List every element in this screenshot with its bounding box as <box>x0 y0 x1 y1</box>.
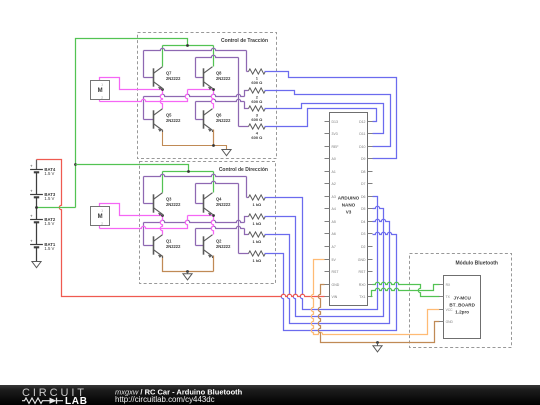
svg-text:1 kΩ: 1 kΩ <box>253 239 263 244</box>
svg-text:BT_BOARD: BT_BOARD <box>449 303 475 308</box>
svg-text:1.5 V: 1.5 V <box>44 246 54 251</box>
wire: R5 left lead (purple) <box>247 197 249 199</box>
transistor Q8 (2N2222 NPN) <box>204 67 213 89</box>
wire: battery tap to +V net (green) <box>37 207 76 209</box>
junction: GND net ground tap <box>376 341 379 344</box>
wire: magenta to Q4 emitter <box>188 215 214 217</box>
junction: Q4 emitter node <box>212 214 215 217</box>
svg-text:RX0: RX0 <box>359 283 366 287</box>
svg-text:1 kΩ: 1 kΩ <box>253 221 263 226</box>
svg-text:600 Ω: 600 Ω <box>251 99 263 104</box>
svg-text:A1: A1 <box>332 170 336 174</box>
pin A6 (left) / pin D3 (right) of U1 <box>325 233 330 235</box>
svg-text:1.5 V: 1.5 V <box>44 221 54 226</box>
svg-text:V3: V3 <box>346 210 352 215</box>
pin GND of U2 bluetooth module <box>439 321 444 323</box>
svg-text:ARDUINO: ARDUINO <box>338 196 360 201</box>
svg-text:Q6: Q6 <box>216 112 222 117</box>
IC U2: JY-MCU BT_BOARD 1.2pro bluetooth module <box>444 276 481 339</box>
wire: Q5 base to R2 (purple) <box>144 94 245 96</box>
wire: magenta to Q8 emitter <box>188 89 214 91</box>
wire: R1 drop (purple) <box>246 51 248 72</box>
ground GND net ground symbol <box>377 343 379 346</box>
wire: R6 jog (purple) <box>245 217 249 223</box>
svg-text:VCC: VCC <box>446 308 454 312</box>
ground box1 ground <box>226 149 228 151</box>
svg-text:3V3: 3V3 <box>332 132 338 136</box>
wire: Q2 emitter drop (brown) <box>213 256 215 272</box>
svg-text:600 Ω: 600 Ω <box>251 135 263 140</box>
wire: Q5 base stub (purple) <box>144 119 154 121</box>
svg-text:A2: A2 <box>332 182 336 186</box>
wire: Q2 base riser (purple) <box>195 229 197 246</box>
wire: 5V to BT VCC (orange) <box>311 260 439 335</box>
wire: battery interconnect BAT2-BAT1 <box>36 223 38 245</box>
pin RX of U2 bluetooth module <box>439 284 444 286</box>
svg-text:600 Ω: 600 Ω <box>251 80 263 85</box>
wire: TX1 to BT RX (green) <box>371 285 440 297</box>
transistor Q6 (2N2222 NPN) <box>204 109 213 131</box>
svg-text:Control de Tracción: Control de Tracción <box>221 38 268 44</box>
wire: Q5 collector riser (magenta) <box>160 90 162 109</box>
wire: R1 to D9 (blue) <box>265 72 397 159</box>
pin REF (left) / pin D10 (right) of U1 <box>325 146 330 148</box>
wire: R5 to D6 (blue) <box>265 197 378 310</box>
battery BAT1 (1.5 V cell) <box>30 245 43 248</box>
wire: motor2 terminal2 run (magenta) <box>100 216 188 229</box>
svg-text:1.2pro: 1.2pro <box>455 310 469 315</box>
wire: Q1 emitter to ground (brown) <box>163 256 214 272</box>
wire: Q1 collector riser (magenta) <box>160 216 162 235</box>
wire: R3 jog (purple) <box>245 102 249 109</box>
svg-text:Q8: Q8 <box>216 70 222 75</box>
wire: R8 left lead (purple) <box>239 253 249 255</box>
pin A1 (left) / pin D8 (right) of U1 <box>325 171 330 173</box>
wire: R3 to D11 (blue) <box>265 104 384 134</box>
battery BAT4 (1.5 V cell) <box>30 170 43 173</box>
wire: R7 to D4 (blue) <box>265 219 390 323</box>
wire: Q6 base stub (purple) <box>196 119 204 121</box>
svg-text:REF: REF <box>332 145 339 149</box>
subcircuit box: Modulo Bluetooth <box>410 254 512 348</box>
wire: Q5 base riser (purple) <box>143 97 145 120</box>
svg-text:Módulo Bluetooth: Módulo Bluetooth <box>456 261 499 267</box>
wire: Q7 base to R1 (purple rail A) <box>144 48 247 50</box>
junction: Q3 emitter node <box>161 214 164 217</box>
svg-text:VIN: VIN <box>332 295 338 299</box>
svg-text:Q5: Q5 <box>166 112 172 117</box>
wire: Q7 base stub (purple) <box>144 77 154 79</box>
wire: Q6 collector riser (magenta) <box>211 90 213 109</box>
svg-text:A6: A6 <box>332 232 336 236</box>
pin 5V (left) / pin GND (right) of U1 <box>325 259 330 261</box>
svg-text:+: + <box>30 239 33 244</box>
svg-text:5V: 5V <box>332 258 337 262</box>
wire: battery positive stub (gray) <box>36 160 38 170</box>
wire: R5 drop (purple) <box>246 177 248 198</box>
resistor R8 (1 k&#937;) <box>249 251 266 256</box>
wire: R8 to D3 (blue) <box>265 232 397 330</box>
wire: +V feed from battery into box1 (green) <box>76 39 188 208</box>
svg-text:Q2: Q2 <box>216 238 222 243</box>
svg-text:+: + <box>30 189 33 194</box>
wire: Q2 collector riser (magenta) <box>211 216 213 235</box>
wire: motor1 terminal2 to Q8 emitter / Q6 collector (magenta) <box>100 90 188 102</box>
battery BAT2 (1.5 V cell) <box>30 220 43 223</box>
subcircuit box: Control de Traccion <box>138 33 277 159</box>
svg-text:+: + <box>30 164 33 169</box>
wire: R4 to D12 (blue) <box>265 109 377 127</box>
wire: Q6 base riser (purple) <box>195 102 197 120</box>
svg-text:1.5 V: 1.5 V <box>44 196 54 201</box>
wire: Q1 base to R6 (purple) <box>144 220 245 222</box>
wire: Q7 base riser (purple) <box>143 51 145 78</box>
pin A0 (left) / pin D9 (right) of U1 <box>325 158 330 160</box>
junction: ground tap box2 <box>186 270 189 273</box>
wire: Q3 base to R5 (purple rail) <box>144 174 247 176</box>
wire: Q2 base stub (purple) <box>196 245 204 247</box>
IC U1: Arduino Nano V3 <box>330 113 368 306</box>
battery BAT3 (1.5 V cell) <box>30 195 43 198</box>
transistor Q1 (2N2222 NPN) <box>154 235 163 257</box>
transistor Q2 (2N2222 NPN) <box>204 235 213 257</box>
wire: RX0 to BT TX (green) <box>373 282 440 296</box>
pin A2 (left) / pin D7 (right) of U1 <box>325 183 330 185</box>
junction: emitter ground node box1 <box>212 144 215 147</box>
svg-text:D3: D3 <box>361 232 366 236</box>
pin A7 (left) / pin D2 (right) of U1 <box>325 246 330 248</box>
wire: battery negative to ground <box>36 248 38 262</box>
junction: green branch to box2 <box>74 163 77 166</box>
svg-text:A0: A0 <box>332 157 336 161</box>
svg-text:2N2222: 2N2222 <box>216 76 231 81</box>
svg-text:GND: GND <box>358 258 366 262</box>
wire: GND to BT GND (brown) <box>318 285 439 343</box>
svg-text:2N2222: 2N2222 <box>166 202 181 207</box>
wire: Q2 base to R7 (purple) <box>196 226 245 228</box>
ground box2 ground <box>187 272 189 274</box>
svg-text:1 kΩ: 1 kΩ <box>253 202 263 207</box>
svg-text:600 Ω: 600 Ω <box>251 117 263 122</box>
wire: Q1 base stub (purple) <box>144 245 154 247</box>
wire: Q4 base to R8 (purple rail) <box>196 181 239 183</box>
resistor R6 (1 k&#937;) <box>249 214 266 219</box>
wire: Q1 base riser (purple) <box>143 223 145 246</box>
svg-text:GND: GND <box>446 320 454 324</box>
svg-text:JY-MCU: JY-MCU <box>454 296 472 301</box>
CircuitLab logo <box>22 387 88 405</box>
wire: Q8 collector to +V rail (green) <box>213 46 215 67</box>
svg-text:D7: D7 <box>361 182 366 186</box>
wire: Q4 base riser (purple) <box>195 184 197 204</box>
motor M1 (traccion) (DC motor M) <box>91 81 110 100</box>
svg-text:1.5 V: 1.5 V <box>44 171 54 176</box>
junction: Q8 emitter node <box>212 88 215 91</box>
wire: Q8 base to R4 (purple rail B) <box>196 55 239 57</box>
svg-text:D4: D4 <box>361 220 366 224</box>
wire: battery interconnect BAT3-BAT2 <box>36 198 38 220</box>
pin A4 (left) / pin D5 (right) of U1 <box>325 208 330 210</box>
pin GND (left) / pin RX0 (right) of U1 <box>325 284 330 286</box>
transistor Q5 (2N2222 NPN) <box>154 109 163 131</box>
wire: +V feed into box2 (green) <box>76 165 189 172</box>
transistor Q4 (2N2222 NPN) <box>204 193 213 215</box>
wire: Q8 base riser (purple) <box>195 58 197 78</box>
wire: R2 jog (purple) <box>245 91 249 97</box>
svg-text:A5: A5 <box>332 220 336 224</box>
resistor R7 (1 k&#937;) <box>249 232 266 237</box>
svg-text:RX: RX <box>446 283 451 287</box>
svg-text:D8: D8 <box>361 170 366 174</box>
svg-text:D2: D2 <box>361 245 366 249</box>
wire: R2 to D10 (blue) <box>265 91 391 147</box>
svg-text:TX1: TX1 <box>359 295 365 299</box>
svg-text:2N2222: 2N2222 <box>216 244 231 249</box>
wire: R6 to D5 (blue) <box>265 206 384 316</box>
svg-text:D10: D10 <box>359 145 365 149</box>
resistor R5 (1 k&#937;) <box>249 195 266 200</box>
wire: green +V rail box1 <box>163 45 214 47</box>
wire: R4 drop (purple) <box>238 58 240 127</box>
motor M2 (direccion) (DC motor M) <box>91 207 110 226</box>
junction: Q7 emitter node <box>161 88 164 91</box>
wire: Q6 emitter drop (brown) <box>213 130 215 146</box>
svg-text:D5: D5 <box>361 207 366 211</box>
wire: R8 drop (purple) <box>238 184 240 254</box>
wire: battery positive to VIN (red) <box>37 160 325 297</box>
wire: R4 left lead (purple) <box>239 126 249 128</box>
svg-text:NANO: NANO <box>342 203 356 208</box>
wire: Q3 base riser (purple) <box>143 177 145 204</box>
svg-text:D13: D13 <box>332 120 338 124</box>
resistor R3 (600 &#937;) <box>249 106 266 111</box>
ground battery ground <box>36 261 38 263</box>
svg-text:1 kΩ: 1 kΩ <box>253 258 263 263</box>
svg-text:LAB: LAB <box>65 396 88 405</box>
wire: Q7 collector to +V rail (green) <box>162 46 164 67</box>
pin VIN (left) / pin TX1 (right) of U1 <box>325 296 330 298</box>
svg-text:A7: A7 <box>332 245 336 249</box>
wire: Q3 base stub (purple) <box>144 203 154 205</box>
wire: R7 jog (purple) <box>245 229 249 235</box>
pin A3 (left) / pin D6 (right) of U1 <box>325 196 330 198</box>
svg-text:Q7: Q7 <box>166 70 172 75</box>
wire: Q5 emitter to ground (brown) <box>163 130 227 150</box>
svg-text:2N2222: 2N2222 <box>166 244 181 249</box>
pin RST (left) / pin RST (right) of U1 <box>325 271 330 273</box>
wire: motor1 terminal2 stub down (magenta) <box>99 100 101 102</box>
wire: Q3 collector to rail (green) <box>162 172 164 193</box>
svg-text:Q1: Q1 <box>166 238 172 243</box>
wire: motor1 terminal1 to Q7 emitter / Q5 collector (magenta) <box>100 78 163 90</box>
pin VCC of U2 bluetooth module <box>439 309 444 311</box>
svg-text:2N2222: 2N2222 <box>166 118 181 123</box>
wire: Q4 collector to rail (green) <box>213 172 215 193</box>
wire: R1 left lead (purple) <box>247 71 249 73</box>
junction: green feed joins rail box2 <box>187 170 190 173</box>
svg-text:A3: A3 <box>332 195 336 199</box>
transistor Q7 (2N2222 NPN) <box>154 67 163 89</box>
svg-text:D9: D9 <box>361 157 366 161</box>
wire: motor2 terminal2 stub (magenta) <box>99 226 101 229</box>
svg-text:D11: D11 <box>359 132 365 136</box>
wire: Q6 base to R3 (purple) <box>196 99 245 101</box>
subcircuit box: Control de Direccion <box>140 162 276 284</box>
wire: green +V rail box2 <box>163 171 214 173</box>
svg-text:D12: D12 <box>359 120 365 124</box>
svg-text:2N2222: 2N2222 <box>216 118 231 123</box>
wire: motor2 terminal1 to Q3 emitter / Q1 collector (magenta) <box>100 204 163 216</box>
transistor Q3 (2N2222 NPN) <box>154 193 163 215</box>
junction: green feed joins rail box1 <box>186 44 189 47</box>
wire: Q8 base stub (purple) <box>196 77 204 79</box>
svg-text:Control de Dirección: Control de Dirección <box>219 167 268 173</box>
svg-text:D6: D6 <box>361 195 366 199</box>
svg-text:M: M <box>98 88 103 94</box>
svg-text:Q3: Q3 <box>166 196 172 201</box>
resistor R2 (600 &#937;) <box>249 88 266 93</box>
pin D13 (left) / pin D12 (right) of U1 <box>325 121 330 123</box>
resistor R4 (600 &#937;) <box>249 124 266 129</box>
svg-text:2N2222: 2N2222 <box>166 76 181 81</box>
svg-text:http://circuitlab.com/cy443dc: http://circuitlab.com/cy443dc <box>115 395 215 404</box>
svg-text:+: + <box>30 214 33 219</box>
resistor R1 (600 &#937;) <box>249 69 266 74</box>
junction: battery tap node <box>35 206 38 209</box>
svg-text:RST: RST <box>359 270 367 274</box>
pin A5 (left) / pin D4 (right) of U1 <box>325 221 330 223</box>
svg-text:GND: GND <box>332 283 340 287</box>
svg-text:Q4: Q4 <box>216 196 222 201</box>
svg-text:2N2222: 2N2222 <box>216 202 231 207</box>
svg-text:A4: A4 <box>332 207 336 211</box>
pin 3V3 (left) / pin D11 (right) of U1 <box>325 133 330 135</box>
wire: battery interconnect BAT4-BAT3 <box>36 173 38 195</box>
pin TX of U2 bluetooth module <box>439 296 444 298</box>
wire: Q4 base stub (purple) <box>196 203 204 205</box>
svg-text:M: M <box>98 214 103 220</box>
svg-text:RST: RST <box>332 270 340 274</box>
